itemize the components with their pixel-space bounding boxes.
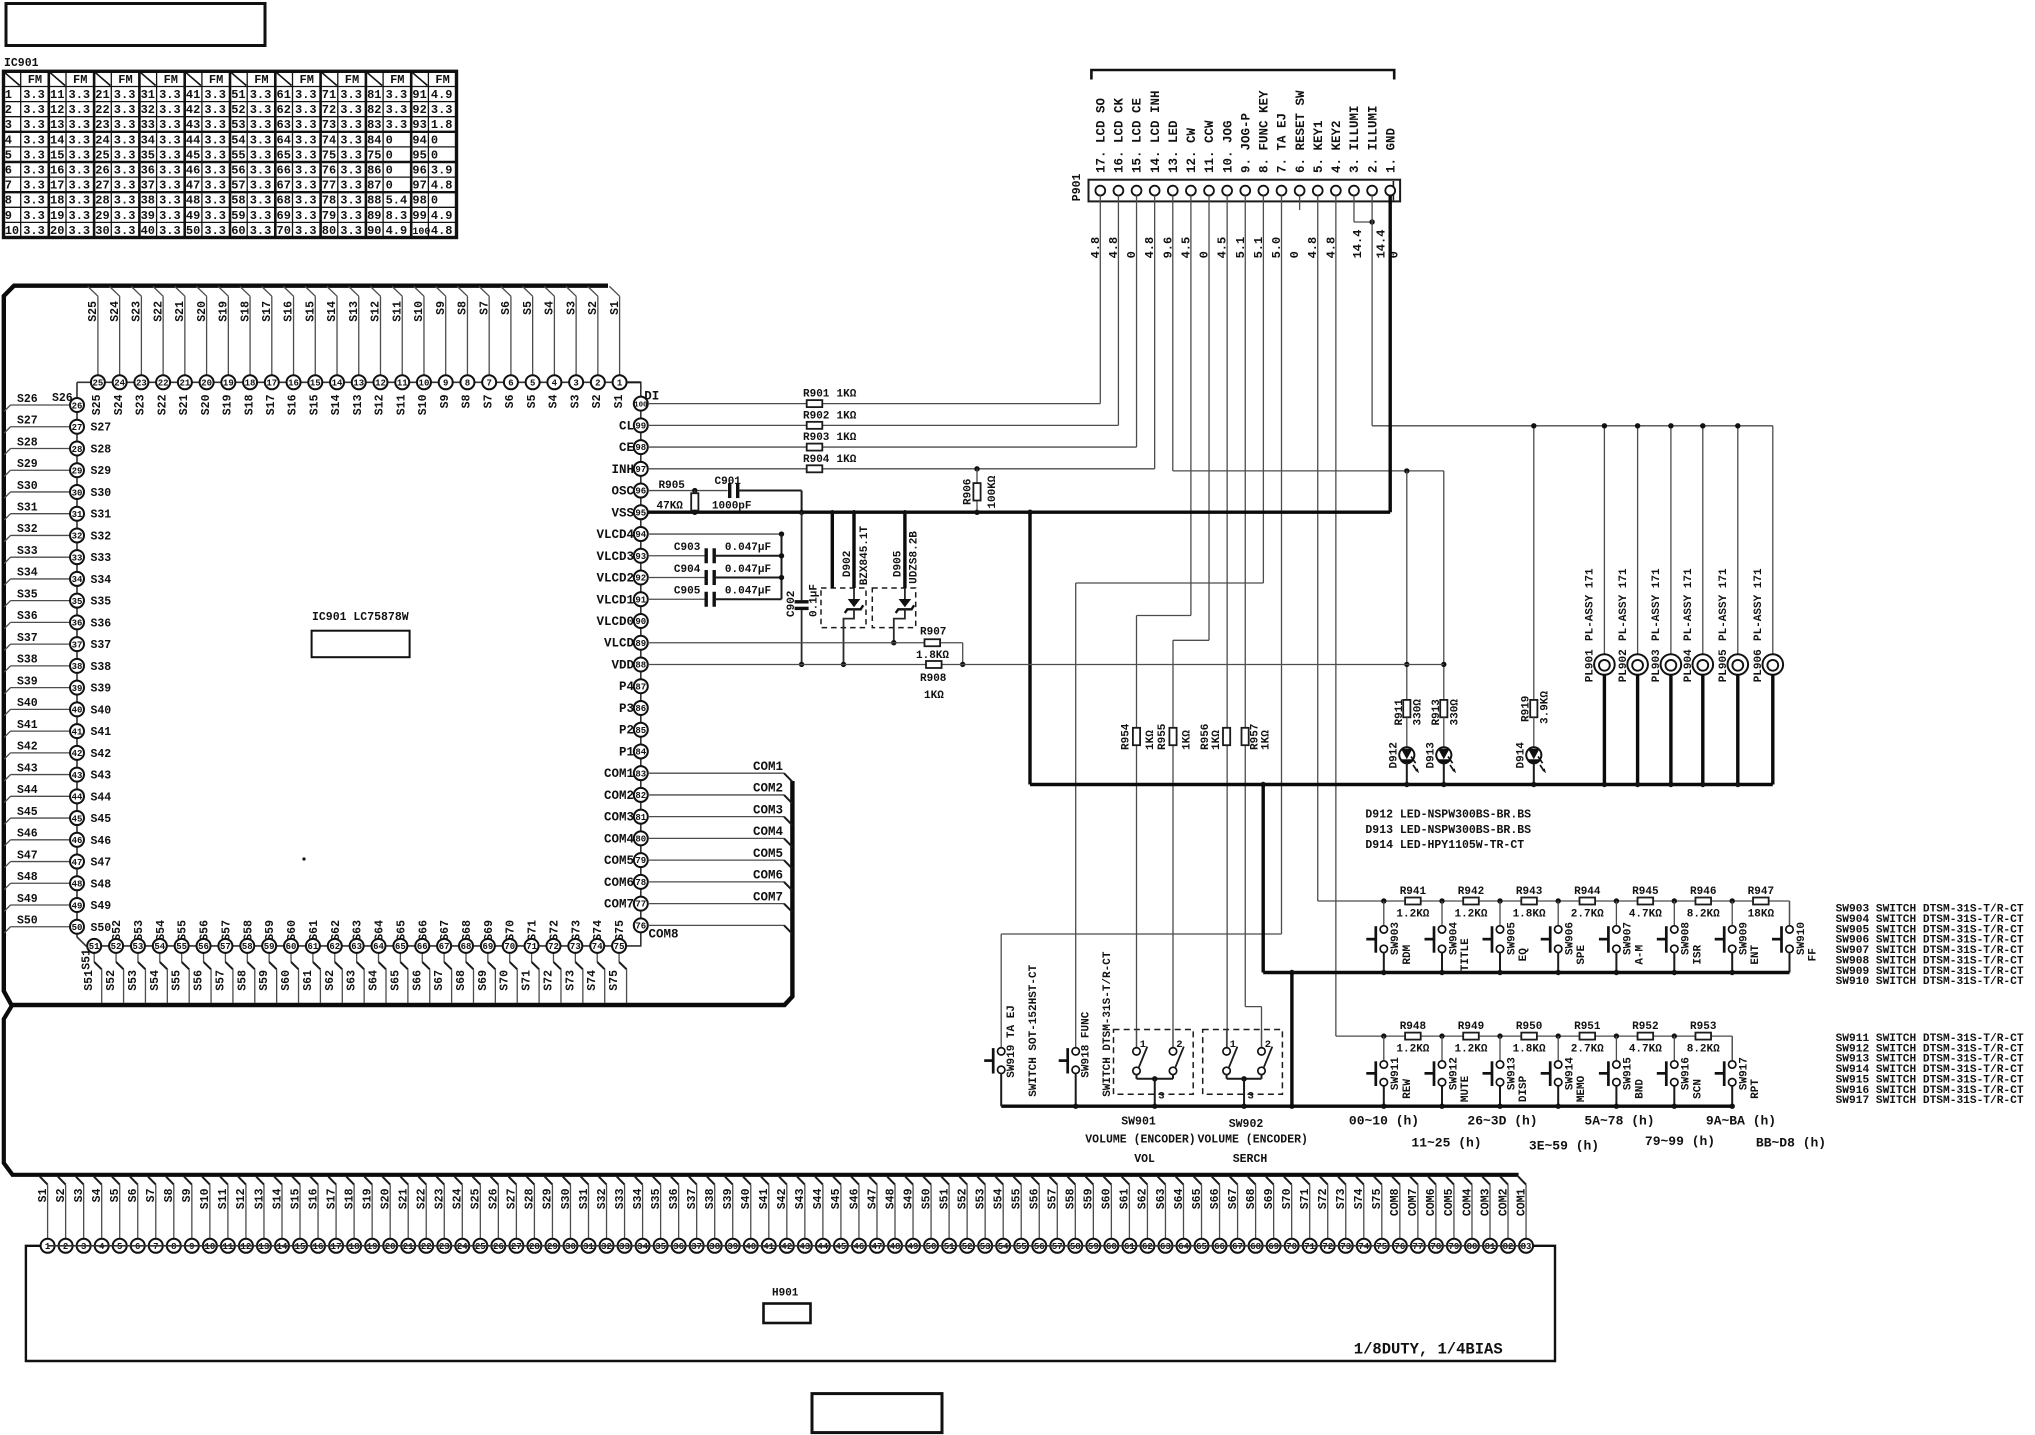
- IC901 pin 22 circle: [156, 375, 170, 389]
- svg-text:BZX845.1T: BZX845.1T: [859, 525, 871, 585]
- svg-text:FM: FM: [73, 73, 87, 87]
- H901 pin 65 circle: [1195, 1239, 1209, 1253]
- svg-text:27: 27: [95, 179, 109, 193]
- svg-text:S53: S53: [974, 1188, 987, 1209]
- svg-text:59: 59: [1088, 1242, 1099, 1252]
- svg-text:S29: S29: [17, 458, 38, 471]
- H901 pin 46 (S46) lead: [851, 1177, 859, 1185]
- wire ILLUMI to R919: [1533, 426, 1535, 700]
- wire lower switch bottom bus (thick): [1001, 1104, 1732, 1107]
- svg-text:8.3: 8.3: [386, 209, 408, 223]
- svg-text:56: 56: [231, 164, 245, 178]
- svg-text:3.3: 3.3: [295, 103, 317, 117]
- IC901 pin 37 circle: [70, 637, 84, 651]
- junction row1 bus at SW909: [1730, 898, 1735, 903]
- svg-text:1. GND: 1. GND: [1384, 127, 1398, 173]
- svg-text:C905: C905: [674, 586, 701, 598]
- svg-text:10. JOG: 10. JOG: [1221, 120, 1235, 173]
- IC901 pin 59 (S59) lead + wire: [268, 953, 270, 962]
- svg-text:5A~78 (h): 5A~78 (h): [1584, 1114, 1654, 1129]
- svg-text:3.3: 3.3: [23, 133, 45, 147]
- svg-text:48: 48: [890, 1242, 901, 1252]
- switch SW914 MEMO symbol: [1557, 1036, 1559, 1061]
- svg-text:S51: S51: [938, 1188, 951, 1209]
- switch SW915 BND symbol: [1615, 1036, 1617, 1061]
- svg-text:S5: S5: [526, 394, 539, 408]
- svg-text:57: 57: [1052, 1242, 1063, 1252]
- svg-text:96: 96: [635, 487, 646, 497]
- IC901 pin 20 circle: [200, 375, 214, 389]
- H901 pin 20 (S20) lead: [382, 1177, 390, 1185]
- H901 pin 77 circle: [1411, 1239, 1425, 1253]
- IC901 pin 12 circle: [373, 375, 387, 389]
- svg-text:47KΩ: 47KΩ: [657, 501, 684, 513]
- svg-text:3.3: 3.3: [159, 118, 181, 132]
- svg-text:15: 15: [310, 379, 321, 389]
- svg-text:2: 2: [1176, 1039, 1182, 1051]
- wire ILLUMI: P901 pin3 jog to pin2: [1353, 195, 1355, 222]
- H901 pin 29 (S29) lead: [545, 1177, 553, 1185]
- svg-text:44: 44: [817, 1242, 828, 1252]
- svg-text:S51: S51: [81, 949, 94, 970]
- svg-text:S56: S56: [199, 920, 212, 941]
- svg-text:3: 3: [1158, 1091, 1164, 1103]
- wire ILLUMI to PL903: [1670, 426, 1672, 655]
- svg-text:83: 83: [635, 769, 646, 779]
- H901 pin 22 circle: [419, 1239, 433, 1253]
- IC901 pin 42 (S42) lead + wire: [11, 752, 71, 754]
- H901 pin 1 circle: [41, 1239, 55, 1253]
- wire ILLUMI to PL901: [1603, 426, 1605, 655]
- encoder SW902 common bar: [1227, 1078, 1262, 1080]
- svg-text:S75: S75: [614, 920, 627, 941]
- svg-text:R904: R904: [803, 454, 830, 466]
- svg-text:9: 9: [5, 209, 12, 223]
- IC901 pin 40 circle: [70, 702, 84, 716]
- svg-text:60: 60: [1106, 1242, 1117, 1252]
- junction VDD at R907: [960, 662, 965, 667]
- svg-text:1KΩ: 1KΩ: [837, 389, 857, 401]
- svg-text:81: 81: [635, 813, 646, 823]
- resistor R907 1.8K (series VLCD): [925, 639, 941, 646]
- svg-text:3.3: 3.3: [340, 179, 362, 193]
- IC901 pin 38 circle: [70, 659, 84, 673]
- connector H901 box: [26, 1246, 1555, 1361]
- H901 pin 66 (S66) lead: [1212, 1177, 1220, 1185]
- IC901 pin 75 circle: [612, 939, 626, 953]
- svg-text:S52: S52: [956, 1188, 969, 1209]
- svg-text:S51: S51: [83, 970, 96, 991]
- junction row1 GND bus at SW906: [1556, 970, 1561, 975]
- svg-text:18: 18: [50, 194, 64, 208]
- svg-text:2. ILLUMI: 2. ILLUMI: [1366, 105, 1380, 173]
- svg-text:S35: S35: [650, 1188, 663, 1209]
- svg-text:S61: S61: [302, 970, 315, 991]
- svg-text:S21: S21: [398, 1188, 411, 1209]
- svg-text:38: 38: [709, 1242, 720, 1252]
- svg-text:1.2KΩ: 1.2KΩ: [1396, 909, 1429, 921]
- wire ILLUMI rail to lamps: [1372, 425, 1773, 427]
- svg-text:29: 29: [72, 467, 83, 477]
- svg-text:S45: S45: [91, 813, 112, 826]
- wire PL906 to LED rail (thick): [1771, 675, 1774, 785]
- svg-text:S72: S72: [542, 970, 555, 991]
- svg-text:18KΩ: 18KΩ: [1748, 909, 1775, 921]
- H901 pin 60 circle: [1104, 1239, 1118, 1253]
- H901 pin 11 (S11) lead: [220, 1177, 228, 1185]
- svg-text:4.9: 4.9: [386, 224, 408, 238]
- svg-text:COM3: COM3: [1479, 1188, 1492, 1216]
- H901 pin 24 (S24) lead: [454, 1177, 462, 1185]
- H901 pin 59 (S59) lead: [1086, 1177, 1094, 1185]
- H901 pin 81 (COM3) lead: [1482, 1177, 1490, 1185]
- svg-text:S68: S68: [455, 970, 468, 991]
- svg-text:3: 3: [1248, 1091, 1254, 1103]
- svg-text:VLCD1: VLCD1: [596, 593, 634, 607]
- P901 pin 4 circle: [1331, 186, 1341, 196]
- svg-text:39: 39: [727, 1242, 738, 1252]
- svg-text:S48: S48: [91, 878, 112, 891]
- junction LED rail at PL905: [1735, 782, 1740, 787]
- resistor R902 1K (series): [807, 422, 823, 429]
- svg-text:S8: S8: [461, 394, 474, 408]
- svg-text:3.3: 3.3: [69, 118, 91, 132]
- junction ILLUMI at R919: [1531, 423, 1536, 428]
- svg-text:63: 63: [351, 942, 362, 952]
- svg-text:FM: FM: [435, 73, 449, 87]
- H901 pin 75 (S75) lead: [1374, 1177, 1382, 1185]
- IC901 pin 25 circle: [91, 375, 105, 389]
- H901 pin 64 circle: [1176, 1239, 1190, 1253]
- svg-text:R919: R919: [1521, 696, 1533, 722]
- svg-text:47: 47: [186, 179, 200, 193]
- svg-text:3.3: 3.3: [204, 194, 226, 208]
- svg-text:R953: R953: [1690, 1021, 1717, 1033]
- svg-text:TITLE: TITLE: [1460, 938, 1472, 971]
- svg-text:S26: S26: [52, 392, 73, 405]
- svg-text:4.8: 4.8: [431, 179, 453, 193]
- svg-text:11: 11: [397, 379, 408, 389]
- junction row1 bus at SW906: [1556, 898, 1561, 903]
- junction VSS at R906: [974, 510, 979, 515]
- svg-text:S62: S62: [1137, 1188, 1150, 1209]
- H901 pin 57 circle: [1050, 1239, 1064, 1253]
- svg-text:11: 11: [50, 88, 64, 102]
- H901 pin 72 (S72) lead: [1320, 1177, 1328, 1185]
- svg-text:78: 78: [322, 194, 336, 208]
- IC901 pin 7 (S7) lead + wire: [488, 296, 490, 375]
- svg-text:PL-ASSY 171: PL-ASSY 171: [1753, 568, 1765, 641]
- resistor R911 330: [1403, 700, 1410, 717]
- IC901 pin 72 circle: [546, 939, 560, 953]
- svg-text:34: 34: [141, 133, 155, 147]
- svg-text:3.3: 3.3: [295, 224, 317, 238]
- svg-text:C901: C901: [715, 476, 742, 488]
- svg-text:S28: S28: [524, 1188, 537, 1209]
- svg-text:SCN: SCN: [1692, 1079, 1704, 1099]
- wire FUNC KEY: P901 pin8 down-step to SW918: [1262, 195, 1264, 583]
- svg-text:S42: S42: [91, 748, 112, 761]
- IC901 pin 33 circle: [70, 550, 84, 564]
- H901 pin 52 (S52) lead: [959, 1177, 967, 1185]
- wire INH net: IC pin97 to P901: [648, 468, 1155, 470]
- IC901 pin 53 (S53) lead + wire: [137, 953, 139, 962]
- svg-text:3.3: 3.3: [114, 133, 136, 147]
- switch SW916 SCN symbol: [1673, 1036, 1675, 1061]
- P901 pin 16 circle: [1114, 186, 1124, 196]
- svg-text:FM: FM: [164, 73, 178, 87]
- svg-text:S32: S32: [91, 530, 112, 543]
- svg-text:3.3: 3.3: [295, 179, 317, 193]
- svg-text:S36: S36: [17, 610, 38, 623]
- junction VDD at D902: [841, 662, 846, 667]
- svg-text:S73: S73: [564, 970, 577, 991]
- encoder SW901 pin 2 contact: [1172, 1030, 1174, 1048]
- svg-text:21: 21: [179, 379, 190, 389]
- svg-text:S3: S3: [569, 394, 582, 408]
- svg-text:S43: S43: [17, 762, 38, 775]
- svg-text:R941: R941: [1400, 886, 1427, 898]
- H901 pin 42 circle: [780, 1239, 794, 1253]
- H901 pin 71 (S71) lead: [1302, 1177, 1310, 1185]
- svg-text:S55: S55: [1011, 1188, 1024, 1209]
- svg-text:37: 37: [72, 640, 83, 650]
- H901 pin 3 (S3) lead: [76, 1177, 84, 1185]
- svg-text:77: 77: [1412, 1242, 1423, 1252]
- svg-text:3.3: 3.3: [159, 224, 181, 238]
- junction row1 GND bus at SW905: [1497, 970, 1502, 975]
- IC901 pin 27 circle: [70, 420, 84, 434]
- svg-text:R952: R952: [1632, 1021, 1658, 1033]
- resistor R9410: [1500, 1035, 1558, 1037]
- svg-text:S69: S69: [1263, 1188, 1276, 1209]
- diode D905 UDZS8.2B package (dashed): [872, 588, 915, 628]
- H901 pin 80 (COM4) lead: [1464, 1177, 1472, 1185]
- IC901 pin 83 circle: [634, 766, 648, 780]
- H901 pin 19 circle: [365, 1239, 379, 1253]
- junction cap bus at VLCD4: [779, 531, 784, 536]
- svg-text:COM5: COM5: [1443, 1188, 1456, 1216]
- svg-text:44: 44: [72, 793, 83, 803]
- svg-text:93: 93: [412, 118, 426, 132]
- D902 cathode stub (thick): [852, 512, 855, 588]
- svg-text:97: 97: [635, 465, 646, 475]
- H901 pin 39 circle: [726, 1239, 740, 1253]
- svg-text:C902: C902: [786, 591, 798, 617]
- IC901 pin 39 circle: [70, 681, 84, 695]
- wire ILLUMI to PL905: [1737, 426, 1739, 655]
- svg-text:S53: S53: [127, 970, 140, 991]
- svg-text:D914: D914: [1516, 742, 1528, 769]
- svg-text:4: 4: [5, 133, 12, 147]
- svg-text:R913: R913: [1431, 699, 1443, 726]
- svg-text:3.3: 3.3: [23, 224, 45, 238]
- svg-text:3.3: 3.3: [69, 164, 91, 178]
- svg-text:S16: S16: [283, 301, 296, 322]
- H901 pin 3 circle: [77, 1239, 91, 1253]
- IC901 pin 24 circle: [113, 375, 127, 389]
- resistor R945: [1616, 900, 1674, 902]
- svg-text:S57: S57: [214, 970, 227, 991]
- wire VLCD: IC pin89 to R907: [648, 642, 963, 644]
- svg-text:33: 33: [141, 118, 155, 132]
- svg-text:3.3: 3.3: [204, 179, 226, 193]
- svg-text:3.3: 3.3: [23, 103, 45, 117]
- H901 pin 17 circle: [329, 1239, 343, 1253]
- svg-text:COM5: COM5: [604, 854, 634, 868]
- H901 pin 55 circle: [1014, 1239, 1028, 1253]
- svg-text:6: 6: [135, 1242, 140, 1252]
- H901 pin 2 (S2) lead: [58, 1177, 66, 1185]
- svg-text:3.3: 3.3: [204, 209, 226, 223]
- H901 pin 45 circle: [834, 1239, 848, 1253]
- svg-text:VOL: VOL: [1134, 1153, 1155, 1166]
- svg-text:R943: R943: [1516, 886, 1543, 898]
- stray dot artifact: [302, 857, 305, 860]
- svg-text:S42: S42: [17, 741, 38, 754]
- svg-text:29: 29: [547, 1242, 558, 1252]
- H901 pin 67 (S67) lead: [1230, 1177, 1238, 1185]
- H901 pin 2 circle: [59, 1239, 73, 1253]
- svg-text:S50: S50: [920, 1188, 933, 1209]
- svg-text:4: 4: [552, 379, 558, 389]
- IC901 pin 63 circle: [350, 939, 364, 953]
- svg-text:41: 41: [72, 727, 83, 737]
- junction lower GND bus at SW912: [1439, 1104, 1444, 1109]
- wire R919 to D914: [1533, 717, 1535, 747]
- junction lower GND bus at SW917: [1730, 1104, 1735, 1109]
- svg-text:D905: D905: [893, 550, 905, 577]
- svg-text:35: 35: [141, 148, 155, 162]
- IC901 pin 47 (S47) lead + wire: [11, 861, 71, 863]
- svg-text:R955: R955: [1157, 723, 1169, 750]
- svg-text:COM2: COM2: [753, 782, 783, 796]
- wire VLCD2: IC pin92 to C904: [648, 577, 705, 579]
- svg-text:3.3: 3.3: [340, 194, 362, 208]
- IC901 pin 48 circle: [70, 876, 84, 890]
- svg-text:69: 69: [1268, 1242, 1279, 1252]
- svg-text:330Ω: 330Ω: [1413, 699, 1425, 726]
- H901 pin 62 (S62) lead: [1140, 1177, 1148, 1185]
- svg-text:S11: S11: [217, 1188, 230, 1209]
- svg-text:3.3: 3.3: [159, 209, 181, 223]
- svg-text:S40: S40: [17, 697, 38, 710]
- svg-text:86: 86: [635, 704, 646, 714]
- IC901 pin 5 (S5) lead + wire: [532, 296, 534, 375]
- svg-text:S39: S39: [91, 683, 112, 696]
- svg-text:36: 36: [72, 619, 83, 629]
- svg-text:S27: S27: [17, 415, 38, 428]
- svg-text:72: 72: [1322, 1242, 1333, 1252]
- svg-text:S61: S61: [1119, 1188, 1132, 1209]
- svg-text:53: 53: [980, 1242, 991, 1252]
- IC901 pin 9 circle: [439, 375, 453, 389]
- svg-text:SW918 FUNC: SW918 FUNC: [1081, 1011, 1093, 1077]
- svg-text:S22: S22: [416, 1188, 429, 1209]
- svg-text:3.3: 3.3: [250, 194, 272, 208]
- svg-text:62: 62: [1142, 1242, 1153, 1252]
- svg-text:FM: FM: [118, 73, 132, 87]
- H901 pin 18 circle: [347, 1239, 361, 1253]
- IC901 pin 34 (S34) lead + wire: [11, 578, 71, 580]
- svg-text:S64: S64: [374, 920, 387, 941]
- svg-text:S14: S14: [271, 1188, 284, 1209]
- svg-text:S35: S35: [17, 588, 38, 601]
- svg-text:3.3: 3.3: [295, 118, 317, 132]
- svg-text:8: 8: [5, 194, 12, 208]
- svg-text:D914 LED-HPY1105W-TR-CT: D914 LED-HPY1105W-TR-CT: [1365, 839, 1524, 852]
- IC901 pin 70 circle: [503, 939, 517, 953]
- svg-text:S22: S22: [156, 394, 169, 415]
- svg-text:3.3: 3.3: [23, 164, 45, 178]
- H901 pin 32 circle: [600, 1239, 614, 1253]
- svg-text:S62: S62: [324, 970, 337, 991]
- IC901 pin 50 circle: [70, 920, 84, 934]
- IC901 pin 55 circle: [175, 939, 189, 953]
- svg-text:9A~BA (h): 9A~BA (h): [1706, 1114, 1776, 1129]
- svg-text:74: 74: [1358, 1242, 1369, 1252]
- svg-text:4.9: 4.9: [431, 88, 453, 102]
- svg-text:41: 41: [763, 1242, 774, 1252]
- IC901 pin 13 (S13) lead + wire: [358, 296, 360, 375]
- svg-text:S60: S60: [286, 920, 299, 941]
- svg-text:S1: S1: [37, 1188, 50, 1202]
- H901 pin 43 circle: [798, 1239, 812, 1253]
- wire CE net: IC pin98 to P901: [648, 446, 1137, 448]
- svg-text:2: 2: [595, 379, 600, 389]
- IC901 pin 17 (S17) lead + wire: [271, 296, 273, 375]
- svg-text:UDZS8.2B: UDZS8.2B: [909, 531, 921, 584]
- svg-text:S10: S10: [413, 301, 426, 322]
- svg-text:65: 65: [395, 942, 406, 952]
- IC901 pin 32 (S32) lead + wire: [11, 534, 71, 536]
- encoder SW902 pin 1 contact: [1226, 1030, 1228, 1048]
- capacitor C905 0.047uF: [705, 592, 708, 607]
- IC901 pin 82 circle: [634, 788, 648, 802]
- svg-text:0.047µF: 0.047µF: [725, 542, 771, 554]
- svg-text:BND: BND: [1634, 1079, 1646, 1099]
- svg-text:RPT: RPT: [1750, 1079, 1762, 1099]
- svg-text:R951: R951: [1574, 1021, 1601, 1033]
- svg-text:S28: S28: [17, 436, 38, 449]
- svg-text:75: 75: [367, 148, 381, 162]
- svg-text:SW916: SW916: [1681, 1057, 1693, 1090]
- svg-text:S7: S7: [145, 1188, 158, 1202]
- svg-text:55: 55: [1016, 1242, 1027, 1252]
- IC901 pin 5 circle: [526, 375, 540, 389]
- svg-text:24: 24: [114, 379, 125, 389]
- svg-text:38: 38: [141, 194, 155, 208]
- switch SW912 MUTE symbol: [1441, 1036, 1443, 1061]
- svg-text:46: 46: [186, 164, 200, 178]
- svg-text:VLCD3: VLCD3: [596, 550, 634, 564]
- H901 pin 33 circle: [618, 1239, 632, 1253]
- svg-text:3.3: 3.3: [114, 118, 136, 132]
- H901 pin 31 (S31) lead: [581, 1177, 589, 1185]
- svg-text:SW907: SW907: [1623, 922, 1635, 955]
- junction VDD at C902: [799, 662, 804, 667]
- svg-text:S38: S38: [17, 654, 38, 667]
- IC901 pin 2 circle: [591, 375, 605, 389]
- svg-text:65: 65: [1196, 1242, 1207, 1252]
- svg-text:71: 71: [526, 942, 537, 952]
- svg-text:3.3: 3.3: [159, 103, 181, 117]
- svg-text:53: 53: [133, 942, 144, 952]
- IC901 pin 66 (S66) lead + wire: [421, 953, 423, 962]
- wire switch row2 top bus (KEY2): [1336, 1035, 1384, 1037]
- svg-text:4. KEY2: 4. KEY2: [1330, 120, 1344, 173]
- H901 pin 74 (S74) lead: [1356, 1177, 1364, 1185]
